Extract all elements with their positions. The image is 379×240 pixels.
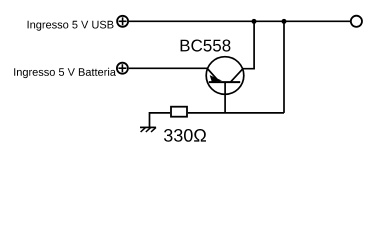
terminal USB input (+) xyxy=(117,16,128,27)
terminal battery input (+) xyxy=(117,63,128,74)
wire battery to emitter xyxy=(129,67,208,69)
wire ground riser xyxy=(150,113,171,127)
label Ingresso 5 V USB xyxy=(28,21,114,31)
resistor R1 body xyxy=(171,107,187,117)
wire top rail xyxy=(129,20,351,22)
terminal output xyxy=(351,16,362,27)
wire top rail to base net xyxy=(283,21,285,113)
label BC558 xyxy=(181,40,231,52)
label 330 ohm xyxy=(164,129,206,142)
transistor Q1 BC558 body xyxy=(206,57,244,95)
wire base net bottom xyxy=(188,112,284,114)
transistor emitter with arrow xyxy=(207,69,219,83)
ground xyxy=(140,127,156,132)
transistor base bar xyxy=(209,81,240,83)
node junction dot 1 xyxy=(252,19,257,24)
transistor collector diagonal xyxy=(231,69,243,82)
wire base lead down xyxy=(224,82,226,113)
node junction dot 2 xyxy=(282,19,287,24)
label Ingresso 5 V Batteria xyxy=(14,68,116,78)
wire collector to top rail xyxy=(243,21,254,68)
